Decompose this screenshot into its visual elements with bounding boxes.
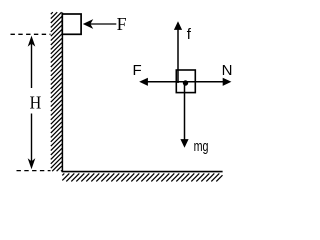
svg-text:N: N: [222, 62, 233, 79]
wall face line: [61, 13, 63, 173]
FBD right arrow head (normal N): [223, 78, 232, 86]
block on wall: [62, 14, 81, 34]
svg-text:F: F: [133, 62, 142, 79]
wall hatch: [51, 12, 62, 171]
svg-text:mg: mg: [194, 138, 209, 155]
FBD block: [176, 70, 195, 93]
force arrow F (left figure) wire: [90, 23, 116, 25]
FBD down arrow head: [180, 139, 188, 148]
FBD up arrow wire (friction f): [177, 29, 179, 84]
H dimension upper wire: [31, 44, 33, 88]
H dimension lower arrow head: [28, 158, 36, 169]
force arrow F (left figure) head: [83, 19, 93, 29]
top dashed line: [11, 33, 51, 35]
ground line: [62, 171, 223, 173]
svg-text:H: H: [30, 93, 42, 113]
FBD down arrow wire (weight mg): [184, 84, 186, 140]
H dimension lower wire: [31, 114, 33, 162]
svg-text:F: F: [117, 14, 127, 34]
bottom dashed line: [17, 170, 51, 172]
FBD up arrow head: [174, 21, 182, 30]
FBD center dot node: [183, 80, 188, 85]
FBD horizontal wire (F-N axis): [147, 81, 224, 83]
H dimension upper arrow head: [28, 36, 36, 47]
FBD left arrow head (applied F): [139, 78, 148, 86]
ground hatch: [62, 173, 222, 181]
